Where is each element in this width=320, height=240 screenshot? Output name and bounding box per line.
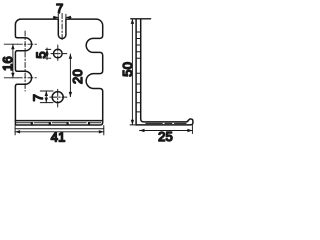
side view vertical leg inner line xyxy=(140,20,142,119)
hole A (dia 5) xyxy=(54,49,63,58)
dimension 50 (side height) xyxy=(130,19,136,125)
svg-text:25: 25 xyxy=(158,129,173,144)
dimension 7 (top slot) xyxy=(53,14,71,19)
leg end face bottom line xyxy=(15,128,103,130)
band tick 2 xyxy=(49,122,51,125)
hole B crosshair xyxy=(50,96,67,98)
dimension 20 (hole spacing) xyxy=(69,54,72,97)
side view bottom leg hidden dashes xyxy=(146,122,186,124)
side view bottom leg inner line + fillet + end lip xyxy=(141,119,193,125)
band mid dashed line xyxy=(16,122,100,124)
svg-text:7: 7 xyxy=(31,94,46,101)
dimension 5 (hole A) xyxy=(45,48,50,60)
band tick 3 xyxy=(67,122,69,125)
dimension 25 (side depth) xyxy=(140,126,193,134)
band tick 4 xyxy=(88,122,90,125)
band tick 1 xyxy=(31,122,33,125)
side view leg rungs (hidden feature marks) xyxy=(136,32,140,112)
hole B (dia 7) xyxy=(52,92,63,103)
svg-text:7: 7 xyxy=(56,1,63,16)
centerlines xyxy=(4,14,67,108)
side view top lip xyxy=(131,18,151,20)
svg-text:41: 41 xyxy=(51,130,66,145)
svg-text:20: 20 xyxy=(70,69,85,84)
bend line (band top) xyxy=(15,120,102,122)
keyhole vertical centerline xyxy=(24,31,26,91)
side view vertical leg outer line xyxy=(135,20,137,125)
dimension 7 (hole B dia) xyxy=(40,91,53,103)
dimension 16 (left) xyxy=(11,44,14,78)
svg-text:5: 5 xyxy=(33,51,48,58)
keyhole 1 horizontal centerline xyxy=(4,43,17,45)
keyhole 2 horizontal centerline xyxy=(4,77,17,79)
slot centerline xyxy=(61,14,63,41)
svg-text:16: 16 xyxy=(0,56,15,71)
side view bottom leg outer line xyxy=(136,124,190,126)
dimension 41 (bottom width) xyxy=(15,126,104,135)
hole A crosshair xyxy=(51,53,67,55)
front view outline xyxy=(15,19,102,125)
svg-text:50: 50 xyxy=(120,62,135,77)
